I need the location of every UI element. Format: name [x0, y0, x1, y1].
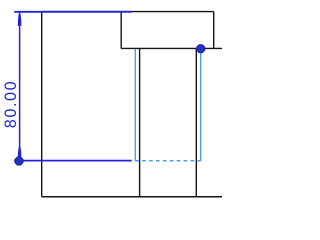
inner pocket right edge — [195, 48, 197, 196]
svg-text:80.00: 80.00 — [2, 80, 20, 129]
dimension line vertical — [19, 12, 21, 160]
inner pocket left edge — [139, 48, 141, 196]
dimension arrowhead bottom — [18, 145, 22, 159]
step vertical edge — [120, 12, 122, 49]
step bottom edge — [121, 47, 222, 49]
part left edge — [41, 12, 43, 197]
endpoint marker bottom (blue dot) — [15, 157, 23, 165]
part right edge — [213, 12, 215, 49]
highlighted sketch rect right edge (light blue) — [200, 49, 202, 161]
highlighted sketch rect left edge (light blue) — [134, 49, 136, 161]
dimension top extension line — [14, 11, 131, 13]
endpoint marker top right (blue dot) — [197, 45, 205, 53]
part top edge — [42, 11, 214, 13]
part bottom edge — [42, 196, 222, 198]
dimension arrowhead top — [18, 12, 22, 25]
dimension bottom extension line — [14, 160, 132, 162]
highlighted sketch rect bottom dashed edge — [135, 160, 200, 162]
